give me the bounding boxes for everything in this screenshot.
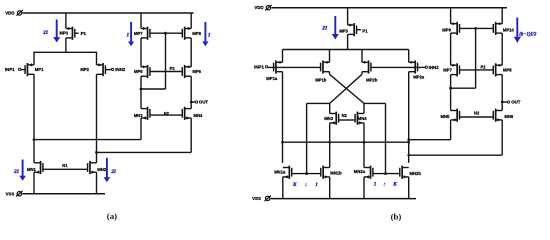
svg-text:N1: N1 — [62, 163, 68, 168]
svg-text:MP3: MP3 — [59, 31, 68, 36]
svg-text:INN2: INN2 — [115, 67, 126, 72]
svg-text:MN4: MN4 — [358, 116, 368, 121]
svg-text:MP2: MP2 — [80, 67, 89, 72]
svg-text:MN3: MN3 — [134, 113, 144, 118]
svg-text:K: K — [292, 182, 297, 188]
svg-text:MP1b: MP1b — [315, 77, 327, 82]
svg-text:2I: 2I — [42, 30, 49, 36]
svg-text:VDD: VDD — [254, 5, 263, 10]
svg-text:OUT: OUT — [511, 100, 521, 105]
svg-text:2I: 2I — [321, 26, 328, 32]
svg-text:MP9: MP9 — [442, 27, 451, 32]
svg-text:VSS: VSS — [6, 191, 15, 196]
svg-text:MN2b: MN2b — [410, 171, 422, 176]
svg-text:P2: P2 — [170, 66, 176, 71]
svg-text::: : — [305, 182, 307, 188]
svg-text:MN2: MN2 — [97, 167, 107, 172]
svg-text:VDD: VDD — [5, 11, 14, 16]
svg-text::: : — [384, 182, 386, 188]
svg-text:INP1: INP1 — [254, 65, 264, 70]
svg-text:MP1: MP1 — [35, 67, 44, 72]
svg-text:INP1: INP1 — [5, 67, 15, 72]
svg-text:P1: P1 — [81, 31, 87, 36]
svg-text:MN4: MN4 — [194, 113, 204, 118]
svg-text:MP5: MP5 — [134, 69, 143, 74]
svg-text:N2: N2 — [342, 113, 348, 118]
svg-text:MP3: MP3 — [339, 28, 348, 33]
svg-text:MN1a: MN1a — [274, 170, 286, 175]
svg-text:K: K — [392, 182, 397, 188]
svg-text:MN2a: MN2a — [354, 169, 366, 174]
svg-text:MP8: MP8 — [503, 68, 512, 73]
svg-text:(b): (b) — [391, 212, 402, 222]
svg-text:(k−1)I/2: (k−1)I/2 — [519, 32, 537, 37]
svg-text:MP1a: MP1a — [266, 76, 278, 81]
svg-text:MP7: MP7 — [134, 31, 143, 36]
svg-text:MN6: MN6 — [504, 114, 514, 119]
svg-text:(a): (a) — [107, 211, 117, 221]
svg-text:MP7: MP7 — [443, 68, 452, 73]
svg-text:MN1: MN1 — [27, 167, 37, 172]
svg-text:N2: N2 — [164, 111, 170, 116]
svg-text:OUT: OUT — [199, 100, 209, 105]
svg-text:N2: N2 — [474, 110, 480, 115]
svg-text:MN1b: MN1b — [330, 171, 342, 176]
svg-text:VSS: VSS — [252, 196, 261, 201]
svg-text:MN3: MN3 — [324, 116, 334, 121]
svg-text:MP2b: MP2b — [366, 77, 378, 82]
svg-text:MP6: MP6 — [192, 69, 201, 74]
svg-text:1: 1 — [315, 182, 318, 188]
svg-text:INN2: INN2 — [429, 65, 440, 70]
svg-text:2I: 2I — [13, 169, 20, 175]
svg-text:MP2a: MP2a — [413, 74, 425, 79]
svg-text:2I: 2I — [110, 169, 117, 175]
svg-text:P1: P1 — [362, 28, 368, 33]
svg-text:P2: P2 — [481, 64, 487, 69]
svg-text:1: 1 — [374, 182, 377, 188]
svg-text:MP10: MP10 — [503, 28, 515, 33]
svg-text:MP8: MP8 — [192, 31, 201, 36]
svg-text:MN5: MN5 — [441, 114, 451, 119]
